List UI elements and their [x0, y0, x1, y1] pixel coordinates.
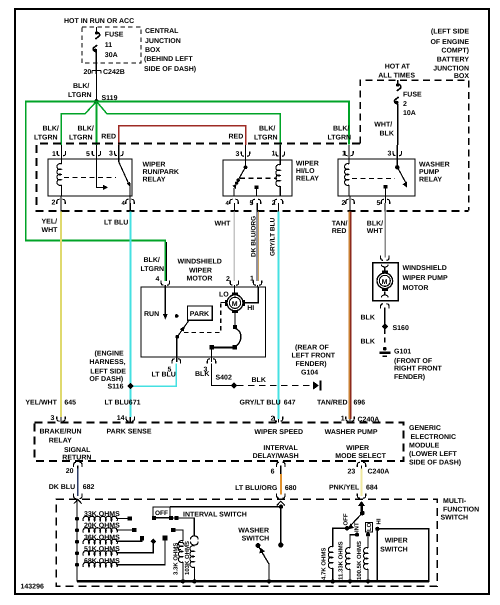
svg-text:10A: 10A [403, 110, 416, 117]
svg-text:ALL TIMES: ALL TIMES [378, 73, 415, 80]
GEM pin 2 [271, 416, 283, 423]
svg-text:(BEHIND LEFT: (BEHIND LEFT [144, 55, 193, 63]
svg-text:HOT AT: HOT AT [385, 64, 411, 71]
resistor 103K OHMS vertical [184, 541, 197, 584]
svg-text:S402: S402 [216, 375, 232, 382]
K1 pin 2 [52, 196, 66, 207]
svg-text:LTGRN: LTGRN [254, 135, 278, 142]
svg-text:WIPER: WIPER [385, 537, 408, 544]
svg-text:FENDER): FENDER) [394, 373, 425, 381]
svg-text:RUN: RUN [144, 311, 159, 318]
wiper switch LO contact boxed label [366, 522, 373, 537]
washer switch arm [256, 543, 272, 584]
svg-text:3: 3 [51, 415, 55, 422]
svg-text:MOTOR: MOTOR [187, 276, 213, 283]
svg-text:5: 5 [250, 200, 254, 207]
svg-text:JUNCTION: JUNCTION [433, 66, 469, 73]
wiper switch arm pivot [358, 501, 365, 515]
svg-text:MODULE: MODULE [409, 443, 440, 450]
svg-text:3.3K OHMS: 3.3K OHMS [173, 543, 180, 575]
svg-text:RELAY: RELAY [143, 177, 166, 184]
svg-text:GENERIC: GENERIC [409, 425, 441, 432]
K3 pin 5 [377, 196, 390, 207]
svg-text:M: M [232, 301, 238, 308]
svg-text:RIGHT FRONT: RIGHT FRONT [394, 366, 443, 373]
svg-text:YEL/: YEL/ [42, 218, 58, 226]
svg-text:OF DASH): OF DASH) [89, 375, 123, 383]
svg-text:20: 20 [84, 69, 92, 76]
wire RED jumper relay1 pin3 to relay2 pin3 [119, 126, 246, 145]
wire label TAN/RED [332, 220, 348, 236]
windshield wiper motor box [141, 287, 266, 357]
svg-text:BLK: BLK [361, 315, 375, 322]
svg-text:FUSE: FUSE [105, 32, 124, 39]
K1 pin 5 [86, 145, 101, 159]
wire BLK dashed to G104 [237, 377, 312, 386]
svg-text:RED: RED [229, 134, 244, 141]
svg-text:WHT/: WHT/ [374, 121, 392, 129]
svg-text:BLK/: BLK/ [259, 125, 275, 133]
svg-text:HI: HI [376, 518, 383, 524]
node S119 [94, 95, 118, 104]
relay K1 wiper run/park relay box [48, 159, 132, 196]
fuse F2 10A [395, 80, 423, 145]
svg-text:645: 645 [64, 400, 76, 407]
wire label YEL/WHT 645 [25, 399, 76, 407]
svg-text:RELAY: RELAY [419, 176, 442, 183]
ground G104 note [292, 344, 336, 377]
svg-text:OFF: OFF [343, 513, 350, 525]
connector C242B pin 20 [84, 69, 125, 76]
motor run contact dot [175, 314, 179, 318]
relay K3 label [419, 162, 450, 184]
interval tap 2 [116, 528, 136, 532]
svg-text:RETURN: RETURN [62, 454, 91, 461]
ground G104 connector [313, 381, 321, 391]
engine harness note [89, 350, 126, 384]
svg-text:SIDE OF DASH): SIDE OF DASH) [409, 459, 461, 467]
relay K2 label [296, 161, 319, 183]
switch common ground bus [77, 580, 429, 582]
svg-text:OF ENGINE: OF ENGINE [430, 39, 469, 46]
svg-text:HI: HI [247, 305, 254, 312]
wire green branch left to relay pin 1 [61, 103, 95, 145]
svg-text:SWITCH: SWITCH [242, 536, 270, 543]
svg-text:5: 5 [377, 200, 381, 207]
wire BLK/LTGRN main green horizontal [26, 102, 349, 282]
svg-text:(REAR OF: (REAR OF [295, 344, 330, 352]
svg-text:11: 11 [105, 42, 113, 49]
wire label GRY/LT BLU 647 [240, 399, 296, 407]
wire WHT relay2 pin4 to motor pin2 [233, 203, 235, 212]
svg-text:WHT: WHT [367, 228, 384, 235]
svg-text:1: 1 [272, 151, 276, 158]
svg-text:LTGRN: LTGRN [69, 135, 93, 142]
svg-text:C240A: C240A [368, 469, 390, 476]
K2 pin 4 [226, 199, 239, 207]
wire DK BLU GEM pin20 to mfs [49, 469, 95, 497]
svg-text:BLK: BLK [195, 371, 209, 378]
motor pin 3 [204, 357, 216, 374]
svg-text:CENTRAL: CENTRAL [145, 28, 179, 35]
svg-text:LT BLU: LT BLU [105, 400, 129, 407]
wire label BLK/LTGRN relay2 pin1 [254, 125, 278, 142]
svg-text:647: 647 [284, 400, 296, 407]
svg-text:LT BLU: LT BLU [104, 220, 128, 227]
wire LT BLU/ORG GEM pin6 to mfs [235, 474, 297, 495]
K1 pin 4 [122, 196, 135, 207]
svg-text:BLK: BLK [252, 377, 266, 384]
svg-text:2: 2 [226, 276, 230, 283]
motor pin 2 [226, 276, 239, 287]
K2 pin 2 [272, 199, 283, 207]
svg-text:GRY/LT BLU: GRY/LT BLU [270, 217, 277, 256]
resistor 3.3K OHMS vertical [173, 541, 186, 584]
svg-text:G104: G104 [301, 370, 318, 377]
svg-text:WASHER: WASHER [419, 162, 450, 169]
svg-text:WHT: WHT [42, 227, 59, 234]
svg-text:143296: 143296 [21, 584, 44, 591]
wiper switch arm [348, 513, 362, 529]
mfs entry pin washer feed [277, 493, 285, 505]
svg-text:RED: RED [101, 134, 116, 141]
GEM pin 20 [66, 462, 82, 475]
motor pin 5 [168, 357, 181, 374]
svg-text:WHT: WHT [215, 221, 232, 228]
svg-text:WIPER: WIPER [346, 445, 369, 452]
washer pump motor armature M [377, 265, 393, 298]
motor park switch arm [175, 321, 189, 358]
wire label BLK/WHT [367, 220, 384, 236]
svg-text:LTGRN: LTGRN [68, 92, 92, 99]
wire OFF to washer feed [170, 506, 281, 508]
svg-text:WASHER: WASHER [238, 528, 269, 535]
hot at all times label [378, 64, 415, 80]
svg-text:C242B: C242B [103, 69, 125, 76]
motor mechanical link (dashed) [184, 304, 221, 333]
svg-text:JUNCTION: JUNCTION [145, 38, 181, 45]
interval tap 3 [116, 536, 144, 541]
motor wire pin2 to top brush [233, 287, 235, 293]
svg-text:MODE SELECT: MODE SELECT [335, 453, 386, 460]
resistor 11.33K OHMS (INT) [338, 535, 358, 584]
wire label BLK/LTGRN relay3 pin1 [328, 125, 352, 142]
resistor ladder R-int5 [75, 562, 117, 567]
wire PNK/YEL GEM pin23 to mfs [329, 469, 378, 497]
svg-text:BRAKE/RUN: BRAKE/RUN [40, 428, 82, 436]
wire BLK/LTGRN fuse to S119 [68, 74, 96, 100]
motor pin 4 [156, 276, 170, 287]
multifunction switch label [441, 498, 480, 522]
K1 fixed contact from pin 5 [96, 159, 108, 190]
svg-text:671: 671 [129, 400, 141, 407]
svg-text:6: 6 [271, 469, 275, 476]
node S116 [108, 383, 134, 391]
K3 switch arm from pin 3 [395, 159, 407, 187]
interval switch OFF box [153, 507, 170, 518]
svg-text:1: 1 [341, 416, 345, 423]
node S160 [382, 323, 409, 332]
svg-text:SIDE OF DASH): SIDE OF DASH) [144, 65, 196, 73]
svg-text:RUN/PARK: RUN/PARK [143, 168, 179, 176]
K1 pin 1 [52, 145, 66, 159]
svg-text:3: 3 [236, 151, 240, 158]
svg-text:RED: RED [332, 228, 347, 235]
svg-text:682: 682 [83, 484, 95, 491]
svg-text:1: 1 [52, 151, 56, 158]
motor armature M [225, 293, 245, 314]
svg-text:WIPER SPEED: WIPER SPEED [254, 429, 303, 436]
svg-text:2: 2 [403, 101, 407, 108]
wire BLK dashed to G101 [361, 329, 385, 346]
K1 pin 3 [109, 145, 123, 159]
svg-text:RELAY: RELAY [296, 175, 319, 182]
svg-text:2: 2 [272, 200, 276, 207]
GEM pin 23 / C240A [348, 462, 390, 475]
svg-text:HI/LO: HI/LO [296, 167, 315, 175]
svg-text:(FRONT OF: (FRONT OF [394, 357, 433, 365]
interval switch common line [152, 516, 194, 536]
K3 pin 2 [342, 196, 355, 207]
svg-text:WIPER: WIPER [143, 162, 166, 169]
relay K1 label [143, 162, 179, 184]
svg-text:BLK/: BLK/ [367, 220, 383, 228]
svg-text:BLK/: BLK/ [43, 125, 59, 133]
K2 coil [276, 160, 280, 196]
svg-text:SIGNAL: SIGNAL [64, 447, 91, 454]
wire green branch right to hi/lo relay pin 1 [98, 103, 280, 145]
ground G101 note [394, 349, 443, 382]
svg-text:4.7K OHMS: 4.7K OHMS [321, 548, 328, 580]
battery junction box label [430, 28, 469, 81]
svg-text:4: 4 [156, 276, 160, 283]
svg-text:20: 20 [66, 468, 74, 475]
K1 coil [57, 159, 61, 196]
svg-text:30A: 30A [105, 52, 118, 59]
svg-text:SWITCH: SWITCH [380, 546, 408, 553]
relay row dashed enclosure [37, 144, 469, 212]
interval arm second contact hook [178, 542, 185, 549]
resistor 100.5K OHMS (LO) [356, 537, 370, 584]
washer switch label [238, 528, 269, 543]
wire BLK/WHT relay3 pin5 to washer motor [384, 203, 386, 212]
interval tap 1 [116, 516, 132, 520]
svg-text:YEL/WHT: YEL/WHT [25, 399, 57, 407]
GEM pin 6 [271, 462, 285, 475]
motor LO HI labels [219, 292, 254, 313]
GEM side note [409, 425, 461, 467]
K3 pin 3 [388, 145, 402, 159]
wiper switch OFF contact [345, 526, 349, 530]
interval tap 4 [116, 538, 156, 552]
svg-text:696: 696 [354, 400, 366, 407]
K2 pin 1 [272, 145, 285, 160]
windshield wiper motor label [178, 259, 222, 283]
resistor 4.7K OHMS (OFF) [321, 528, 348, 583]
svg-text:M: M [382, 279, 388, 286]
svg-text:WASHER PUMP: WASHER PUMP [325, 429, 378, 436]
wire label LT BLU 671 [105, 400, 141, 407]
wire LT BLU relay1 pin4 to GEM pin14 [129, 203, 131, 212]
svg-text:LTGRN: LTGRN [328, 135, 352, 142]
resistor ladder R-int4 [75, 551, 117, 556]
svg-text:WIPER: WIPER [296, 161, 319, 168]
multifunction switch box (dashed) [56, 499, 437, 586]
svg-text:BOX: BOX [145, 47, 161, 54]
wire black companion motor feed [165, 242, 167, 281]
svg-text:HARNESS,: HARNESS, [89, 359, 125, 366]
svg-text:14: 14 [117, 415, 125, 422]
wire label WHT/BLK [374, 121, 394, 138]
GEM module box (dashed) [35, 423, 404, 462]
svg-text:100.5K OHMS: 100.5K OHMS [356, 541, 363, 580]
motor wire pin1 to HI brush [245, 287, 258, 303]
svg-text:LO: LO [219, 292, 229, 299]
svg-text:TAN/: TAN/ [332, 220, 348, 228]
GEM pin 1 / C240A [341, 416, 380, 424]
svg-text:LT BLU: LT BLU [152, 372, 176, 379]
interval tap 5 [116, 536, 167, 565]
svg-text:(LOWER LEFT: (LOWER LEFT [409, 450, 458, 458]
K2 mechanical link (dashed) [240, 177, 277, 179]
wire DK BLU/ORG relay2 pin5 to motor pin1 [257, 203, 258, 281]
svg-text:2: 2 [52, 200, 56, 207]
svg-text:WIPER: WIPER [189, 268, 212, 275]
K3 mechanical link (dashed) [352, 178, 395, 180]
svg-text:23: 23 [348, 469, 356, 476]
svg-text:BLK: BLK [380, 131, 394, 138]
fuse F11 30A [93, 27, 124, 74]
interval resistor R3.3K top connection [171, 528, 183, 541]
svg-text:S116: S116 [108, 384, 124, 391]
washer feed wire and contact [278, 504, 283, 547]
GEM internal labels [40, 428, 387, 462]
svg-text:BLK/: BLK/ [333, 125, 349, 133]
svg-text:PUMP: PUMP [419, 169, 440, 176]
K1 mechanical link (dashed) [64, 177, 116, 179]
relay K3 washer pump relay box [338, 159, 415, 196]
washer pump motor pin top [381, 256, 389, 261]
svg-text:SWITCH: SWITCH [441, 515, 469, 522]
resistor ladder labels [84, 511, 120, 565]
svg-text:FENDER): FENDER) [296, 360, 327, 368]
K3 fixed contact pin 5 [384, 185, 388, 196]
svg-text:1: 1 [250, 276, 254, 283]
K2 pin 3 [236, 145, 250, 160]
svg-text:2: 2 [271, 416, 275, 423]
svg-text:3: 3 [109, 151, 113, 158]
svg-text:BLK: BLK [361, 339, 375, 346]
svg-text:TAN/RED: TAN/RED [317, 399, 348, 407]
ground G101 [379, 347, 390, 357]
svg-text:103K OHMS: 103K OHMS [184, 541, 191, 575]
K2 pin 5 [250, 199, 261, 207]
wiper switch INT contact [355, 532, 359, 536]
svg-text:GRY/LT BLU: GRY/LT BLU [240, 399, 281, 407]
svg-text:MOTOR: MOTOR [403, 285, 429, 292]
svg-text:1: 1 [342, 151, 346, 158]
svg-text:WINDSHIELD: WINDSHIELD [403, 265, 447, 272]
svg-text:INTERVAL: INTERVAL [263, 445, 298, 452]
motor park contact box [187, 306, 212, 320]
svg-text:(LEFT SIDE: (LEFT SIDE [431, 28, 469, 36]
battery junction box (dashed) [360, 80, 469, 211]
svg-text:LTGRN: LTGRN [34, 135, 58, 142]
wire TAN/RED relay3 pin2 to GEM pin1 [349, 203, 350, 419]
wire label YEL/WHT [42, 218, 59, 235]
svg-text:DELAY/WASH: DELAY/WASH [253, 452, 299, 460]
interval ladder feed wire [76, 501, 78, 582]
wire GRY/LT BLU relay2 pin2 to GEM pin2 [278, 203, 280, 212]
GEM pin 3 [51, 415, 66, 423]
svg-text:FUSE: FUSE [403, 92, 422, 99]
svg-text:HOT IN RUN OR ACC: HOT IN RUN OR ACC [64, 18, 134, 25]
resistor ladder R-int1 [75, 516, 117, 521]
washer pump motor pin bottom [381, 304, 389, 309]
wiper switch body box [377, 529, 428, 582]
svg-text:S160: S160 [393, 325, 409, 332]
wire label TAN/RED 696 [317, 399, 365, 407]
svg-text:LEFT FRONT: LEFT FRONT [292, 353, 336, 360]
interval arm contact hooks [191, 536, 199, 545]
wiper switch HI contact [375, 518, 382, 531]
wire BLK motor pin3 to S402 [212, 364, 233, 386]
svg-text:PNK/YEL: PNK/YEL [329, 483, 360, 491]
svg-text:PARK: PARK [190, 311, 209, 318]
K1 switch arm pin3 to pin4 [119, 159, 131, 196]
svg-text:BLK/: BLK/ [78, 125, 94, 133]
wire label BLK/LTGRN at motor pin4 [141, 256, 165, 273]
svg-text:ELECTRONIC: ELECTRONIC [411, 434, 457, 441]
svg-text:BLK/: BLK/ [73, 82, 89, 90]
svg-text:11.33K OHMS: 11.33K OHMS [338, 541, 345, 580]
svg-text:C240A: C240A [358, 417, 380, 424]
motor run contact [144, 287, 168, 320]
K2 fixed contact pin 5 [255, 185, 259, 196]
wire BLK washer motor to S160 [361, 308, 385, 326]
svg-text:WIPER PUMP: WIPER PUMP [403, 275, 448, 282]
K2 switch arm pin3 to pin4 [232, 160, 247, 196]
motor pin 1 [250, 276, 262, 288]
washer pump motor box [373, 263, 399, 301]
wire green S119 down to relay pin 5 [95, 102, 97, 146]
svg-text:684: 684 [366, 484, 378, 491]
resistor ladder R-int3 [75, 539, 117, 544]
wire YEL/WHT relay1 pin2 to GEM pin3 [60, 203, 62, 212]
svg-text:LTGRN: LTGRN [141, 266, 165, 273]
svg-text:BATTERY: BATTERY [437, 57, 470, 64]
resistor ladder R-int2 [75, 528, 117, 533]
svg-text:FUNCTION: FUNCTION [443, 506, 479, 513]
svg-text:BLK/: BLK/ [144, 256, 160, 264]
mfs entry pin from pin20 [74, 494, 82, 504]
svg-text:LEFT SIDE: LEFT SIDE [90, 369, 126, 376]
central junction box label [144, 28, 196, 73]
svg-text:G101: G101 [394, 349, 411, 356]
motor wire left brush to link [221, 302, 225, 304]
washer pump motor label [403, 265, 448, 292]
svg-text:680: 680 [285, 485, 297, 492]
svg-text:MULTI-: MULTI- [443, 498, 467, 505]
svg-text:(ENGINE: (ENGINE [95, 350, 125, 358]
GEM pin 14 [117, 415, 135, 423]
K3 coil [345, 159, 349, 196]
svg-text:3: 3 [388, 151, 392, 158]
svg-text:BOX: BOX [454, 73, 470, 80]
svg-text:RELAY: RELAY [49, 438, 72, 445]
K3 pin 1 [342, 145, 353, 159]
svg-text:5: 5 [86, 151, 90, 158]
